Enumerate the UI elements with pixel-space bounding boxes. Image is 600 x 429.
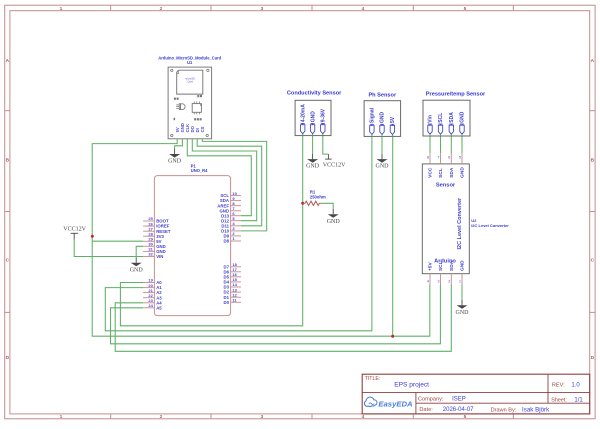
svg-text:4: 4	[362, 6, 365, 12]
svg-text:D0: D0	[224, 300, 230, 305]
wire P1 GND pin 30 down	[136, 246, 143, 257]
svg-text:Sheet:: Sheet:	[551, 397, 567, 403]
svg-text:Isak Björk: Isak Björk	[522, 406, 550, 413]
svg-text:EasyEDA: EasyEDA	[378, 399, 412, 408]
wire U1 GND to ground	[175, 139, 183, 149]
svg-text:Pressure/temp Sensor: Pressure/temp Sensor	[426, 92, 486, 98]
svg-text:REV:: REV:	[552, 382, 565, 388]
svg-text:4: 4	[427, 280, 429, 284]
svg-text:1: 1	[60, 6, 63, 12]
svg-text:TITLE:: TITLE:	[365, 376, 381, 382]
svg-text:D8: D8	[224, 239, 230, 244]
wire Ph 5V down to rail	[392, 135, 394, 337]
svg-text:Ph Sensor: Ph Sensor	[368, 92, 396, 98]
svg-text:SDA: SDA	[449, 167, 455, 178]
svg-text:9-36V: 9-36V	[321, 108, 327, 122]
svg-text:1: 1	[232, 236, 235, 241]
resistor R1 250ohm	[303, 190, 326, 206]
svg-text:Conductivity Sensor: Conductivity Sensor	[287, 90, 342, 96]
svg-text:250ohm: 250ohm	[310, 194, 326, 199]
svg-text:GND: GND	[168, 159, 182, 165]
junction dot R1 tap	[301, 202, 304, 205]
wire converter GND down	[461, 285, 463, 300]
svg-text:Card: Card	[187, 80, 193, 84]
svg-text:Signal: Signal	[370, 107, 376, 123]
wire conductivity 9-36V to VCC12V	[323, 134, 329, 154]
microSD module body drawing	[168, 67, 212, 139]
junction dot Ph 5V	[391, 335, 394, 338]
svg-text:24: 24	[148, 303, 153, 308]
ground Ph sensor	[376, 154, 390, 170]
svg-text:EPS project: EPS project	[394, 382, 429, 389]
power flag VCC12V at conductivity	[323, 154, 346, 168]
svg-text:SCL: SCL	[438, 168, 444, 178]
svg-text:C: C	[6, 258, 10, 264]
wire CLK to D13	[187, 139, 251, 216]
svg-text:5: 5	[464, 414, 467, 420]
microcontroller P1 UNO_R4 body and pins	[143, 176, 241, 316]
wire pressure SDA to converter SDA	[450, 134, 452, 153]
wire A1 to Ph Signal	[105, 135, 372, 331]
svg-text:VCC: VCC	[428, 167, 434, 178]
svg-text:11: 11	[232, 298, 237, 303]
wire A4 to converter SDA	[115, 285, 451, 352]
U1 pin labels 5V GND CLK DO DI CS	[175, 123, 205, 132]
svg-text:GND: GND	[310, 111, 316, 123]
ph sensor box and pins	[364, 101, 401, 137]
svg-text:D: D	[6, 355, 10, 361]
svg-text:GND: GND	[456, 310, 470, 316]
conductivity sensor box and pins	[295, 100, 331, 135]
wire A0 to conductivity 4-20mA	[120, 134, 302, 326]
EasyEDA logo	[364, 397, 412, 408]
svg-text:A: A	[6, 58, 10, 64]
svg-text:Drawn By:: Drawn By:	[491, 407, 517, 413]
svg-text:SDA: SDA	[449, 112, 455, 123]
svg-text:VCC12V: VCC12V	[323, 162, 346, 168]
ground converter	[456, 300, 470, 316]
svg-text:CS: CS	[200, 126, 205, 132]
svg-text:Date:: Date:	[419, 407, 433, 413]
svg-text:6: 6	[448, 156, 450, 160]
svg-text:32: 32	[148, 252, 153, 257]
svg-text:C: C	[591, 258, 595, 264]
svg-text:Vin: Vin	[428, 115, 434, 123]
svg-text:A: A	[591, 58, 595, 64]
svg-text:GND: GND	[380, 112, 386, 124]
wire A5 to converter SCL	[111, 285, 441, 344]
ground U1	[168, 149, 182, 165]
svg-text:1: 1	[459, 280, 461, 284]
svg-text:1: 1	[60, 414, 63, 420]
title block	[362, 374, 590, 414]
svg-text:1/1: 1/1	[574, 398, 583, 404]
svg-text:5: 5	[459, 156, 461, 160]
svg-text:Arduino: Arduino	[434, 258, 456, 264]
svg-text:B: B	[591, 158, 595, 164]
svg-text:GND: GND	[376, 164, 390, 170]
ground conductivity	[306, 154, 320, 170]
svg-text:2026-04-07: 2026-04-07	[443, 407, 474, 413]
svg-text:GND: GND	[306, 164, 320, 170]
svg-text:3: 3	[261, 6, 264, 12]
wire branch 5V to P1 pin 29	[92, 240, 143, 242]
svg-text:4: 4	[362, 414, 365, 420]
wire CS to D10	[202, 139, 266, 231]
svg-text:SCL: SCL	[438, 113, 444, 123]
ground P1 pin30	[130, 257, 144, 273]
svg-text:5: 5	[464, 6, 467, 12]
svg-text:GND: GND	[130, 267, 144, 273]
svg-text:GND: GND	[460, 167, 466, 178]
svg-text:2: 2	[160, 6, 163, 12]
svg-text:I2C Level Converter: I2C Level Converter	[471, 223, 509, 228]
svg-text:+5V: +5V	[428, 262, 434, 271]
svg-text:GND: GND	[460, 260, 466, 271]
svg-text:2: 2	[160, 414, 163, 420]
wire VCC12V to VIN	[74, 240, 143, 257]
ground R1	[327, 209, 341, 225]
wire pressure Vin to converter VCC	[429, 134, 431, 153]
svg-text:8: 8	[427, 156, 429, 160]
wire conductivity GND down	[312, 134, 314, 154]
svg-text:GND: GND	[327, 219, 341, 225]
wire R1 to ground	[322, 203, 334, 209]
svg-text:3: 3	[261, 414, 264, 420]
svg-text:A5: A5	[156, 305, 162, 310]
wire pressure SCL to converter SCL	[440, 134, 442, 153]
svg-text:GND: GND	[460, 111, 466, 123]
wire Ph GND down	[381, 135, 383, 154]
svg-text:VCC12V: VCC12V	[63, 227, 86, 233]
power flag VCC12V left	[63, 227, 86, 240]
svg-text:Company:: Company:	[418, 397, 444, 403]
svg-text:VIN: VIN	[156, 254, 163, 259]
svg-text:Sensor: Sensor	[436, 183, 456, 189]
svg-text:B: B	[6, 158, 10, 164]
svg-text:U1: U1	[187, 60, 193, 65]
svg-text:2: 2	[448, 280, 450, 284]
I2C level converter U2 body and pins	[422, 153, 469, 284]
svg-text:D: D	[591, 355, 595, 361]
junction dot 5V rail	[91, 235, 94, 238]
svg-text:4-20mA: 4-20mA	[300, 104, 306, 122]
svg-text:UNO_R4: UNO_R4	[191, 168, 208, 173]
wire DO to D12	[192, 139, 256, 221]
svg-text:I2C Level Converter: I2C Level Converter	[457, 197, 463, 250]
wire pressure GND to converter GND	[461, 134, 463, 153]
wire DI to D11	[197, 139, 262, 226]
svg-text:7: 7	[438, 156, 440, 160]
svg-text:1.0: 1.0	[571, 382, 580, 388]
wire 5V net from U1 to rail	[92, 139, 430, 336]
pressure/temp sensor box and pins	[423, 100, 470, 136]
svg-text:3: 3	[438, 280, 440, 284]
svg-text:5V: 5V	[390, 116, 396, 123]
svg-text:ISEP: ISEP	[452, 396, 466, 402]
